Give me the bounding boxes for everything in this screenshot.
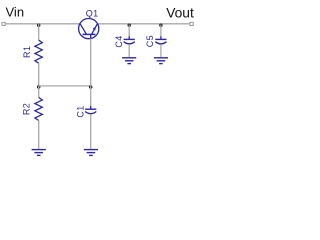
capacitor C1 (76, 105, 97, 117)
collector diagonal (80, 24, 86, 34)
resistor R1 (22, 40, 42, 63)
node junction R1/R2/base (37, 85, 40, 88)
transistor Q1 (79, 8, 99, 38)
svg-text:Vout: Vout (166, 6, 194, 21)
wire divider node to C1 node (39, 85, 91, 87)
wire C5 bottom lead (160, 44, 162, 57)
ground below R2 (32, 150, 46, 156)
wire C1 top lead (90, 86, 92, 106)
ground below C4 (122, 58, 136, 64)
resistor R2 (21, 97, 42, 120)
node junction above R1 (37, 24, 40, 27)
wire R1 bottom lead (38, 63, 40, 87)
wire R2 bottom lead (38, 120, 40, 149)
node junction at C1 top (89, 85, 92, 88)
wire C4 bottom lead (128, 44, 130, 57)
ground below C5 (154, 58, 168, 64)
wire R2 top lead (38, 86, 40, 98)
wire Q1 emitter to Vout (98, 23, 191, 25)
base lead (90, 34, 92, 38)
node junction at C5 (159, 24, 162, 27)
node junction at C4 (128, 24, 131, 27)
terminal Vout port (190, 22, 193, 25)
ground below C1 (84, 150, 98, 156)
base bar (83, 33, 96, 35)
wire C4 top lead (128, 25, 130, 37)
terminal Vin port (2, 22, 5, 25)
svg-text:C1: C1 (76, 105, 86, 117)
svg-text:C5: C5 (145, 35, 155, 47)
capacitor C5 (145, 35, 166, 47)
wire C5 top lead (160, 25, 162, 37)
wire Vin to Q1 collector (5, 23, 80, 25)
wire Q1 base to node (90, 39, 92, 87)
svg-text:R2: R2 (21, 103, 31, 115)
wire R1 top lead (38, 24, 40, 41)
svg-text:Q1: Q1 (86, 8, 99, 18)
svg-text:C4: C4 (114, 35, 124, 47)
wire C1 bottom lead (90, 114, 92, 149)
svg-text:R1: R1 (22, 46, 32, 58)
svg-text:Vin: Vin (6, 4, 25, 19)
emitter arrow (93, 26, 96, 31)
emitter diagonal (92, 24, 98, 34)
capacitor C4 (114, 35, 135, 47)
